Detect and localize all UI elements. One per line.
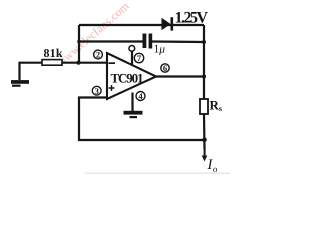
wire right rail lower (below Rs)	[203, 114, 206, 149]
capacitor C1 1u plates	[143, 34, 153, 49]
wire left vertical (top rail to inverting node)	[78, 25, 80, 63]
node A junction cap-rail / left vertical	[77, 40, 81, 44]
svg-text:3: 3	[95, 86, 99, 96]
arrow Io	[202, 147, 208, 162]
pin 6 label	[161, 63, 169, 73]
svg-text:Rs: Rs	[210, 98, 223, 114]
wire output pin 6 to right rail	[156, 75, 204, 77]
wire 81k left lead to ground corner	[20, 63, 43, 80]
ground (under pin 4)	[124, 111, 143, 118]
resistor Rs body	[200, 99, 208, 114]
node E junction bottom wire / right rail	[202, 138, 207, 143]
pin 7 terminal circle	[129, 46, 135, 52]
pin 3 label	[92, 86, 101, 96]
svg-text:6: 6	[163, 63, 167, 73]
wire pin 4 stub	[131, 93, 133, 112]
wire pin 3 feedback loop	[79, 98, 205, 141]
node D junction output / right rail	[202, 75, 206, 79]
svg-text:TC901: TC901	[111, 71, 144, 86]
wire top rail	[79, 24, 204, 26]
node C junction cap rail / right rail	[202, 40, 206, 44]
minus sign (pin 2 input)	[109, 62, 116, 64]
op-amp U1 TC901 triangle	[107, 53, 156, 99]
wire capacitor rail right segment	[152, 40, 204, 43]
svg-text:Io: Io	[207, 157, 218, 174]
watermark www.elecfans.com	[50, 0, 135, 73]
wire 81k right lead to op-amp pin 2	[62, 62, 107, 64]
pin 7 label	[134, 53, 143, 63]
diode D1 1.25V	[162, 17, 174, 30]
svg-text:1.25V: 1.25V	[175, 10, 209, 27]
resistor R 81k body	[42, 60, 62, 66]
node B junction 81k / pin 2	[76, 61, 80, 65]
wire capacitor rail left segment	[79, 40, 143, 42]
ground (left)	[11, 80, 29, 87]
svg-text:81k: 81k	[44, 46, 63, 60]
faint scan streak	[85, 173, 230, 174]
plus sign (pin 3 input)	[109, 85, 115, 91]
pin 2 label	[94, 50, 103, 60]
svg-text:1μ: 1μ	[154, 44, 166, 56]
wire pin 7 stub	[131, 51, 133, 65]
wire right rail upper	[203, 25, 205, 99]
svg-text:2: 2	[96, 50, 100, 60]
pin 4 label	[136, 91, 145, 101]
